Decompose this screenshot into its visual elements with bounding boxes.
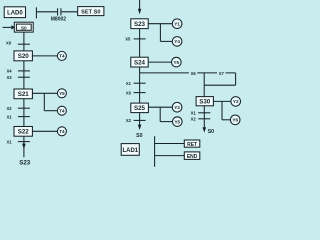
svg-text:Y5: Y5 — [173, 60, 179, 65]
svg-text:X4: X4 — [6, 69, 12, 74]
svg-text:S30: S30 — [199, 99, 211, 106]
wire branch to Y4 — [160, 40, 172, 42]
wire contact to SET box — [61, 11, 77, 13]
transition tick X2 — [18, 107, 30, 109]
svg-text:Y5: Y5 — [59, 91, 65, 96]
wire branch to T4 — [44, 110, 57, 112]
wire S24 to S25 — [139, 67, 141, 103]
svg-text:S21: S21 — [18, 91, 30, 98]
wire branch down — [221, 101, 223, 119]
output coil Y1 — [172, 19, 182, 29]
convergence wire — [204, 84, 235, 86]
svg-text:S25: S25 — [134, 105, 146, 112]
svg-text:END: END — [187, 154, 198, 160]
wire S20 to S21 — [23, 61, 25, 89]
wire S23 to S24 — [139, 29, 141, 58]
initial step S0 — [14, 22, 33, 32]
wire rung to contact — [36, 11, 57, 13]
transition tick X4 — [18, 70, 30, 72]
transition tick X1 — [198, 112, 210, 114]
block label LAD1 — [121, 144, 139, 156]
wire S20 to T4 — [32, 55, 57, 57]
transition tick X1 — [18, 116, 30, 118]
svg-text:S22: S22 — [18, 129, 30, 136]
svg-text:Y1: Y1 — [174, 22, 180, 27]
svg-text:X2: X2 — [191, 117, 197, 122]
svg-text:X0: X0 — [6, 41, 12, 46]
svg-text:X1: X1 — [126, 81, 132, 86]
svg-text:LAD0: LAD0 — [7, 11, 23, 17]
output coil Y5 — [173, 117, 183, 127]
step S25 — [131, 103, 149, 113]
transition tick X5 — [134, 38, 146, 40]
svg-text:Y5: Y5 — [174, 119, 180, 124]
step S30 — [196, 97, 213, 106]
wire S22 down — [23, 136, 25, 157]
wire S23 to Y1 — [148, 23, 173, 25]
wire branch down — [159, 24, 161, 42]
transition tick X3 — [18, 76, 30, 78]
wire branch down — [159, 107, 161, 121]
step S23 — [131, 19, 148, 29]
svg-text:X2: X2 — [6, 106, 12, 111]
entry arrow into S23 — [138, 0, 141, 14]
output coil Y2 — [172, 102, 182, 112]
svg-text:S0: S0 — [208, 129, 214, 135]
output coil Y5 — [57, 89, 66, 98]
transition tick X0 — [134, 92, 146, 94]
transition tick X1 — [18, 141, 30, 143]
branch wire right — [235, 73, 237, 85]
ladder bus rail — [154, 136, 156, 167]
wire S0 to S20 — [23, 32, 25, 51]
svg-text:M8002: M8002 — [51, 17, 67, 23]
wire S21 to Y5 — [32, 92, 57, 94]
svg-text:T4: T4 — [59, 54, 65, 59]
svg-text:Y4: Y4 — [174, 39, 180, 44]
wire S30 to Y2 — [213, 100, 231, 102]
output coil Y4 — [172, 37, 182, 47]
wire S25 down — [139, 113, 141, 126]
svg-text:S23: S23 — [19, 159, 31, 166]
wire S25 to Y2 — [148, 106, 172, 108]
transition tick X0 — [18, 43, 30, 45]
entry arrow into S0 — [3, 25, 16, 29]
svg-text:X1: X1 — [191, 111, 197, 116]
output coil Y5 — [172, 57, 182, 67]
svg-text:Y2: Y2 — [174, 105, 180, 110]
jump arrow down — [22, 144, 26, 150]
divergence wire to right branch — [140, 72, 236, 74]
transition tick X2 — [134, 119, 146, 121]
svg-text:Y6: Y6 — [232, 118, 238, 123]
svg-text:X6: X6 — [191, 71, 197, 76]
svg-text:X5: X5 — [125, 37, 131, 42]
svg-text:X3: X3 — [6, 75, 12, 80]
wire S21 to S22 — [23, 99, 25, 127]
jump arrow down — [203, 127, 207, 132]
step S24 — [131, 57, 148, 67]
wire branch to Y5 — [160, 121, 173, 123]
svg-text:X2: X2 — [126, 118, 132, 123]
wire S24 to Y3 — [148, 61, 172, 63]
wire branch to Y6 — [222, 119, 231, 121]
block label LAD0 — [4, 7, 25, 18]
svg-text:S20: S20 — [18, 53, 30, 60]
output coil Y2 — [231, 97, 241, 107]
svg-text:T4: T4 — [59, 109, 65, 114]
svg-text:SET S0: SET S0 — [81, 10, 100, 16]
output coil T4 — [57, 51, 66, 60]
svg-text:X7: X7 — [219, 71, 225, 76]
svg-text:T4: T4 — [59, 129, 65, 134]
step S20 — [14, 51, 32, 61]
wire branch down — [43, 93, 45, 110]
output coil T4 — [57, 127, 66, 136]
wire rung to RET — [155, 143, 185, 145]
svg-text:S23: S23 — [134, 21, 146, 28]
svg-text:S24: S24 — [134, 59, 146, 66]
svg-text:X1: X1 — [6, 139, 12, 144]
svg-text:S0: S0 — [136, 133, 142, 139]
label X7 on divergence — [217, 70, 225, 75]
contact M8002 — [58, 8, 61, 15]
wire S22 to T4 — [32, 130, 57, 132]
output coil T4 — [57, 106, 66, 115]
step S21 — [14, 89, 32, 99]
ladder left rail — [35, 7, 37, 18]
svg-text:S0: S0 — [21, 25, 27, 31]
transition tick X1 — [134, 82, 146, 84]
output coil Y6 — [230, 115, 240, 125]
jump arrow down — [138, 125, 142, 130]
svg-text:X0: X0 — [126, 90, 132, 95]
svg-text:LAD1: LAD1 — [122, 148, 138, 154]
branch wire down to S30 — [203, 73, 205, 97]
instruction RET — [184, 140, 200, 147]
svg-text:RET: RET — [187, 142, 197, 148]
instruction SET S0 — [78, 7, 104, 16]
wire S30 down — [203, 106, 205, 128]
svg-text:X1: X1 — [6, 114, 12, 119]
wire rung to END — [155, 155, 185, 157]
instruction END — [184, 152, 200, 160]
transition tick X2 — [198, 118, 210, 120]
step S22 — [14, 127, 32, 137]
svg-text:Y2: Y2 — [233, 99, 239, 104]
label X6 on divergence — [189, 70, 197, 75]
